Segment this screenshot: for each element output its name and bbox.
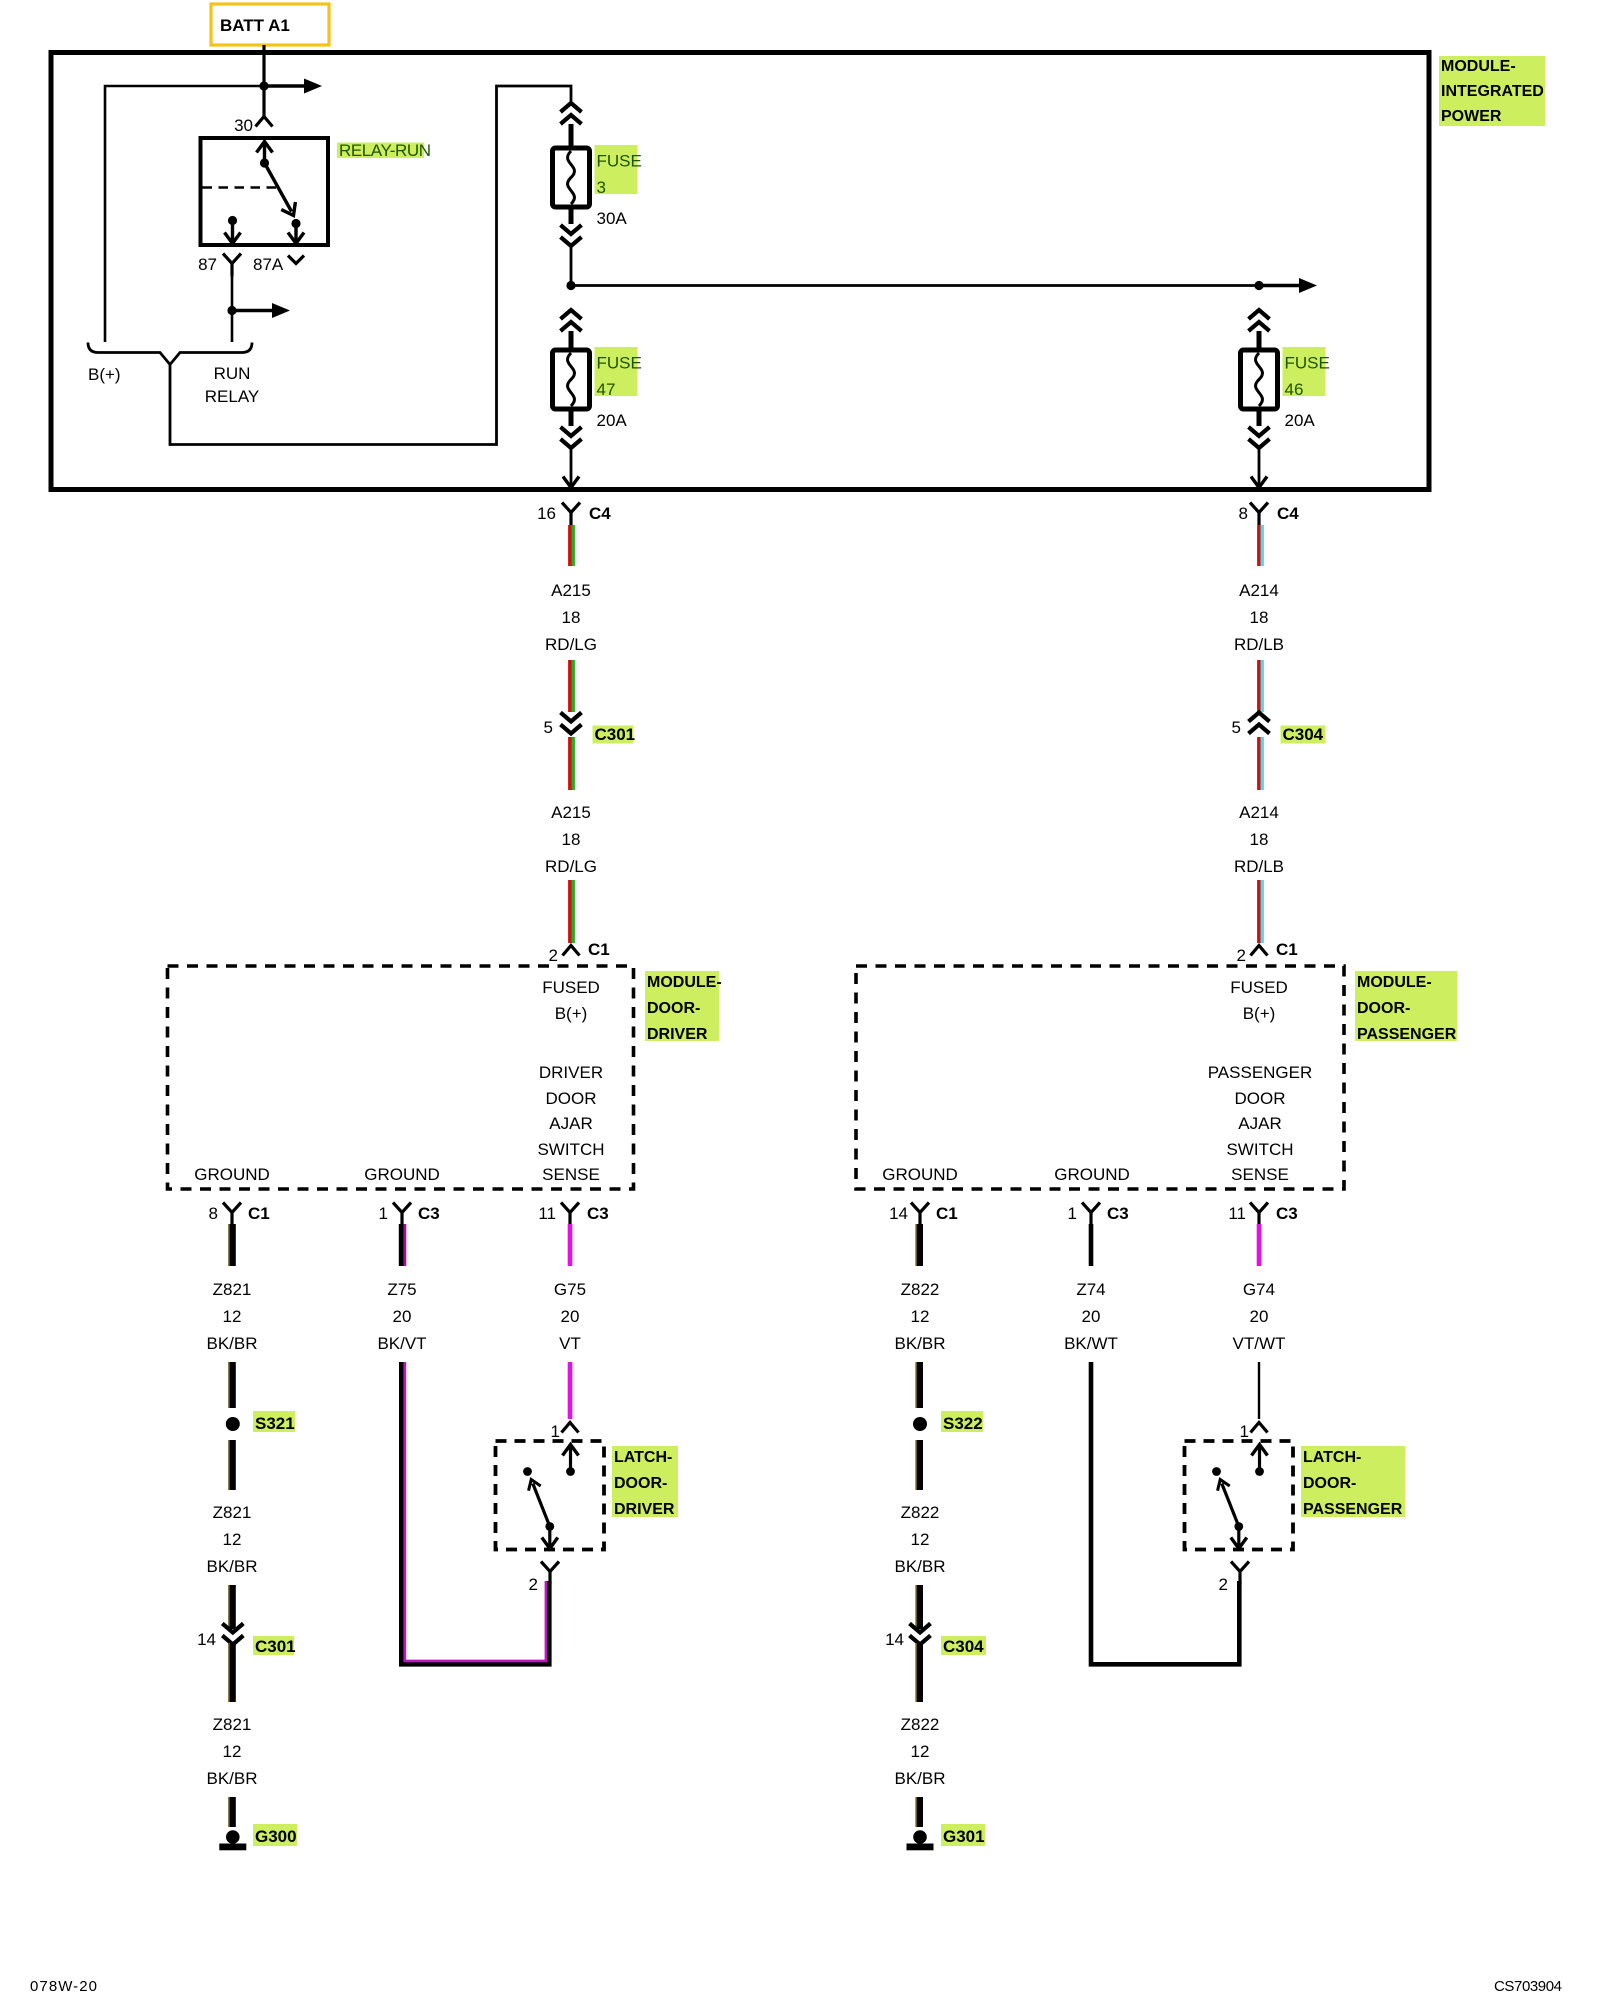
label Z822 12 BK/BR [894,1280,945,1353]
junction at fuse 46 branch [1254,281,1263,290]
junction at battery feed [259,81,268,90]
connector C1 pin 2 passenger [1237,940,1298,965]
wire bracket to fuse 3 [170,86,571,445]
label Z821 12 BK/BR lower [206,1715,257,1788]
wire fuse 47 to box edge with arrow [563,448,579,488]
svg-text:30A: 30A [597,209,628,228]
svg-text:14: 14 [885,1630,904,1649]
wire Z74 BK/WT segment 1 [1089,1224,1094,1266]
wire Z822 BK/BR segment 3 [916,1440,920,1490]
inline connector above fuse 3 [561,103,582,124]
label C301 [593,725,636,744]
svg-text:20: 20 [561,1307,580,1326]
label Z74 20 BK/WT [1064,1280,1118,1353]
module-door-driver pin texts [194,978,604,1184]
svg-text:Z821: Z821 [213,1280,252,1299]
svg-text:G75: G75 [554,1280,586,1299]
svg-text:SENSE: SENSE [1231,1165,1289,1184]
svg-text:DOOR-: DOOR- [614,1475,667,1492]
ground G300 [219,1830,246,1850]
wire Z821 BK/BR segment 2 [229,1362,233,1408]
svg-text:BK/BR: BK/BR [894,1769,945,1788]
svg-text:C4: C4 [589,504,611,523]
svg-text:11: 11 [538,1204,556,1223]
connector C3 pin 1 passenger ground [1068,1203,1129,1226]
inline connector below fuse 47 [561,427,582,448]
svg-text:18: 18 [1250,608,1269,627]
relay pin 87A inside [288,224,304,244]
svg-text:C304: C304 [1283,725,1324,744]
latch passenger switch blade [1214,1477,1243,1531]
wire A215 RD/LG segment 1 [570,525,573,566]
label RUN RELAY [205,364,260,406]
wire G75 VT segment 1 [568,1224,573,1266]
label MODULE-INTEGRATED POWER [1439,56,1545,126]
svg-text:C3: C3 [587,1204,609,1223]
svg-text:1: 1 [379,1204,388,1223]
wire G75 VT segment 2 [568,1362,573,1419]
svg-text:DOOR-: DOOR- [1303,1475,1356,1492]
wire Z821 BK/BR segment 1 [229,1224,233,1266]
label A214 18 RD/LB [1234,581,1284,654]
wire A214 RD/LB segment 1 [1259,525,1262,566]
label C304 lower [941,1636,986,1656]
svg-text:AJAR: AJAR [1238,1114,1281,1133]
svg-text:18: 18 [1250,830,1269,849]
wire A214 RD/LB segment 2 [1259,660,1262,712]
svg-text:20A: 20A [1285,411,1316,430]
relay pin 87 inside [225,216,241,244]
svg-text:30: 30 [234,116,253,135]
svg-text:12: 12 [223,1530,242,1549]
bracket B(+) / RUN RELAY [88,343,252,365]
svg-text:RELAY-RUN: RELAY-RUN [339,141,431,160]
svg-text:BK/BR: BK/BR [206,1557,257,1576]
svg-text:GROUND: GROUND [194,1165,270,1184]
svg-text:C4: C4 [1277,504,1299,523]
svg-text:BK/BR: BK/BR [206,1769,257,1788]
svg-text:FUSED: FUSED [1230,978,1288,997]
label G74 20 VT/WT [1233,1280,1286,1353]
fuse F46 [1241,331,1278,426]
svg-text:RD/LG: RD/LG [545,635,597,654]
module-integrated power box [51,53,1429,490]
module-door-passenger box [856,966,1344,1189]
svg-text:BK/BR: BK/BR [894,1334,945,1353]
wire A215 RD/LG segment 4 [570,880,573,943]
connector C304 pin 5 [1232,713,1270,738]
module-door-passenger pin texts [882,978,1312,1184]
svg-text:FUSED: FUSED [542,978,600,997]
svg-text:C3: C3 [1276,1204,1298,1223]
svg-text:20: 20 [1250,1307,1269,1326]
svg-text:C1: C1 [248,1204,270,1223]
wire BATT A1 to relay pin 30 [262,45,265,116]
svg-text:46: 46 [1285,380,1304,399]
svg-text:20A: 20A [597,411,628,430]
latch passenger pin 1 connector [1240,1422,1268,1441]
svg-text:CS703904: CS703904 [1494,1978,1562,1995]
svg-text:SWITCH: SWITCH [537,1140,604,1159]
svg-text:LATCH-: LATCH- [1303,1449,1361,1466]
connector C1 pin 8 driver ground [209,1203,270,1226]
svg-text:RUN: RUN [214,364,251,383]
svg-text:G300: G300 [255,1827,297,1846]
wire A215 RD/LG segment 2 [570,660,573,712]
label C304 [1281,725,1326,744]
wire G74 VT/WT segment 1 [1257,1224,1262,1266]
inline connector above fuse 47 [561,310,582,331]
wire Z821 BK/BR segment 5 [229,1643,233,1702]
svg-text:Z821: Z821 [213,1715,252,1734]
latch driver switch blade [525,1477,554,1531]
splice S321 [226,1417,240,1431]
wire Z822 BK/BR segment 2 [916,1362,920,1408]
off-page arrow from battery feed [264,79,322,94]
wire 87 to bracket [231,276,234,342]
svg-text:C1: C1 [1276,940,1298,959]
svg-text:AJAR: AJAR [549,1114,592,1133]
latch driver pin 2 connector [529,1562,559,1595]
junction on 87 wire [227,306,236,315]
svg-text:POWER: POWER [1441,108,1502,125]
svg-text:Z822: Z822 [901,1280,940,1299]
svg-text:20: 20 [1082,1307,1101,1326]
svg-text:Z821: Z821 [213,1503,252,1522]
wire fuse 46 to box edge with arrow [1251,448,1267,488]
connector C304 pin 14 [885,1624,930,1650]
label Z75 20 BK/VT [377,1280,426,1353]
svg-text:A215: A215 [551,581,591,600]
svg-text:2: 2 [529,1575,538,1594]
svg-text:12: 12 [223,1307,242,1326]
svg-text:5: 5 [1232,718,1241,737]
label FUSE 47 20A [595,347,642,430]
wire junction to fuse 46 branch [571,284,1259,287]
svg-text:C3: C3 [418,1204,440,1223]
svg-text:FUSE: FUSE [597,152,642,171]
svg-text:DRIVER: DRIVER [539,1063,603,1082]
label MODULE-DOOR-DRIVER [645,971,722,1043]
wire G74 segment 2 [1258,1362,1260,1419]
connector C1 pin 2 driver [549,940,610,965]
svg-text:BATT A1: BATT A1 [220,16,290,35]
latch passenger pin 2 connector [1219,1562,1249,1595]
svg-text:1: 1 [1240,1422,1249,1441]
latch-door-passenger box [1185,1441,1294,1550]
svg-text:C301: C301 [595,725,636,744]
wire A214 RD/LB segment 3 [1259,737,1262,790]
splice S322 [913,1417,927,1431]
svg-text:DOOR-: DOOR- [1357,1000,1410,1017]
svg-text:VT/WT: VT/WT [1233,1334,1286,1353]
svg-text:2: 2 [1219,1575,1228,1594]
svg-text:Z75: Z75 [387,1280,416,1299]
label C301 lower [253,1636,296,1656]
svg-text:14: 14 [889,1204,908,1223]
junction below fuse 3 [566,281,575,290]
label S321 [253,1411,295,1433]
label RELAY-RUN [337,141,431,160]
svg-text:FUSE: FUSE [597,354,642,373]
svg-text:GROUND: GROUND [1054,1165,1130,1184]
svg-text:BK/VT: BK/VT [377,1334,426,1353]
svg-text:C301: C301 [255,1637,296,1656]
battery feed label BATT A1 [211,4,329,45]
label Z821 12 BK/BR [206,1280,257,1353]
svg-text:20: 20 [393,1307,412,1326]
svg-text:Z822: Z822 [901,1715,940,1734]
svg-text:A214: A214 [1239,803,1279,822]
inline connector below fuse 3 [561,225,582,246]
connector C3 pin 11 passenger sense [1228,1203,1297,1226]
svg-text:GROUND: GROUND [364,1165,440,1184]
wire Z74 BK/WT run to latch pin 2 [1091,1362,1239,1664]
svg-text:INTEGRATED: INTEGRATED [1441,83,1544,100]
off-page arrow right of fuse 46 branch [1259,278,1317,293]
svg-text:1: 1 [1068,1204,1077,1223]
label FUSE 3 30A [595,145,642,228]
svg-text:RD/LB: RD/LB [1234,635,1284,654]
relay common arm arrow [257,142,273,168]
svg-text:RELAY: RELAY [205,387,260,406]
svg-text:2: 2 [1237,946,1246,965]
wire B(+) branch [105,86,264,342]
svg-text:5: 5 [544,718,553,737]
svg-text:G301: G301 [943,1827,985,1846]
wire A215 RD/LG segment 3 [570,737,573,790]
svg-text:B(+): B(+) [1243,1004,1276,1023]
svg-text:C304: C304 [943,1637,984,1656]
svg-text:C1: C1 [588,940,610,959]
label LATCH-DOOR-DRIVER [612,1446,678,1518]
relay blade to 87A [265,163,301,228]
connector C4 pin 16 [537,503,611,526]
svg-text:B(+): B(+) [88,365,121,384]
svg-text:12: 12 [911,1742,930,1761]
svg-text:12: 12 [223,1742,242,1761]
svg-text:C1: C1 [936,1204,958,1223]
wire Z75 BK/VT run to latch pin 2 [401,1362,549,1664]
label MODULE-DOOR-PASSENGER [1355,971,1457,1043]
svg-text:RD/LG: RD/LG [545,857,597,876]
latch driver pin 1 connector [551,1422,579,1441]
svg-text:DOOR: DOOR [1235,1089,1286,1108]
latch passenger pin 2 lead [1231,1527,1247,1549]
svg-text:BK/WT: BK/WT [1064,1334,1118,1353]
svg-text:A215: A215 [551,803,591,822]
svg-text:DRIVER: DRIVER [614,1501,675,1518]
relay coil dashed line [203,186,278,189]
svg-text:BK/BR: BK/BR [894,1557,945,1576]
svg-text:G74: G74 [1243,1280,1275,1299]
fuse F3 [553,124,590,224]
svg-text:A214: A214 [1239,581,1279,600]
svg-text:S322: S322 [943,1414,983,1433]
svg-text:1: 1 [551,1422,560,1441]
wire A214 RD/LB segment 4 [1259,880,1262,943]
label G301 [941,1824,985,1846]
svg-text:DOOR: DOOR [546,1089,597,1108]
svg-text:GROUND: GROUND [882,1165,958,1184]
label A214 18 RD/LB lower [1234,803,1284,876]
wire Z821 BK/BR segment 3 [229,1440,233,1490]
svg-text:B(+): B(+) [555,1004,588,1023]
relay RELAY-RUN [201,116,329,245]
svg-text:RD/LB: RD/LB [1234,857,1284,876]
svg-text:SWITCH: SWITCH [1226,1140,1293,1159]
wire Z822 BK/BR segment 5 [916,1643,920,1702]
label G300 [253,1824,297,1846]
inline connector above fuse 46 [1249,310,1270,331]
svg-text:FUSE: FUSE [1285,354,1330,373]
connector C3 pin 11 driver sense [538,1203,608,1226]
wire Z821 BK/BR segment 6 [229,1797,233,1827]
connector C301 pin 14 [197,1624,243,1650]
svg-text:12: 12 [911,1530,930,1549]
wire Z821 BK/BR segment 4 [229,1585,233,1629]
label S322 [941,1411,983,1433]
connector C4 pin 8 [1239,503,1300,526]
label A215 18 RD/LG [545,581,597,654]
svg-text:Z74: Z74 [1076,1280,1105,1299]
svg-text:Z822: Z822 [901,1503,940,1522]
svg-text:BK/BR: BK/BR [206,1334,257,1353]
label FUSE 46 20A [1283,347,1330,430]
latch driver pin 1 contact arrow [563,1445,579,1476]
svg-text:8: 8 [1239,504,1248,523]
svg-text:18: 18 [562,608,581,627]
module-door-driver box [168,966,634,1189]
svg-text:87A: 87A [253,255,284,274]
svg-text:MODULE-: MODULE- [1441,58,1516,75]
svg-text:C3: C3 [1107,1204,1129,1223]
svg-text:SENSE: SENSE [542,1165,600,1184]
ground G301 [907,1830,934,1850]
label Z822 12 BK/BR mid [894,1503,945,1576]
svg-text:DOOR-: DOOR- [647,1000,700,1017]
svg-text:47: 47 [597,380,616,399]
label Z822 12 BK/BR lower [894,1715,945,1788]
fuse F47 [553,331,590,426]
wire Z822 BK/BR segment 1 [916,1224,920,1266]
svg-text:078W-20: 078W-20 [30,1978,97,1995]
latch driver pin 2 lead [542,1527,558,1549]
connector C3 pin 1 driver ground [379,1203,440,1226]
label G75 20 VT [554,1280,586,1353]
svg-text:PASSENGER: PASSENGER [1357,1026,1457,1043]
latch-door-driver box [496,1441,605,1550]
connector C1 pin 14 passenger ground [889,1203,958,1226]
svg-text:PASSENGER: PASSENGER [1303,1501,1403,1518]
svg-text:18: 18 [562,830,581,849]
svg-text:DRIVER: DRIVER [647,1026,708,1043]
svg-text:LATCH-: LATCH- [614,1449,672,1466]
label A215 18 RD/LG lower [545,803,597,876]
off-page arrow from 87 wire [232,303,290,318]
pin 87 label and connector [198,254,241,277]
pin 30 connector [256,117,273,127]
latch driver switch fixed contact [523,1467,532,1476]
svg-text:12: 12 [911,1307,930,1326]
svg-text:14: 14 [197,1630,216,1649]
svg-text:MODULE-: MODULE- [1357,974,1432,991]
wire Z822 BK/BR segment 4 [916,1585,920,1629]
wire fuse 3 to junction [570,246,573,286]
inline connector below fuse 46 [1249,427,1270,448]
svg-text:VT: VT [559,1334,581,1353]
svg-text:MODULE-: MODULE- [647,974,722,991]
wire Z822 BK/BR segment 6 [916,1797,920,1827]
svg-text:87: 87 [198,255,217,274]
label LATCH-DOOR-PASSENGER [1301,1446,1405,1518]
svg-text:8: 8 [209,1204,218,1223]
svg-text:S321: S321 [255,1414,295,1433]
svg-text:PASSENGER: PASSENGER [1208,1063,1313,1082]
svg-text:2: 2 [549,946,558,965]
wire Z75 BK/VT segment 1 [401,1224,405,1266]
svg-text:3: 3 [597,178,606,197]
latch passenger switch fixed contact [1212,1467,1221,1476]
svg-text:16: 16 [537,504,556,523]
label Z821 12 BK/BR mid [206,1503,257,1576]
pin 87A label and connector [253,255,304,274]
svg-text:11: 11 [1228,1204,1246,1223]
connector C301 pin 5 [544,713,582,738]
latch passenger pin 1 contact arrow [1252,1445,1268,1476]
